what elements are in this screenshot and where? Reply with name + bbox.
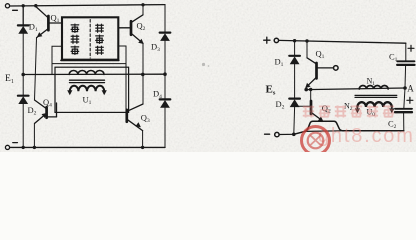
wire bottom rail straight segment under jog	[305, 130, 341, 133]
junction diode branch / bottom rail	[292, 133, 296, 137]
junction mid wire / right branch	[163, 72, 167, 76]
core line between N1 and N2	[355, 94, 397, 96]
terminal (bottom input)	[275, 132, 279, 136]
transformer U1 secondary winding	[70, 86, 104, 91]
polarity dash (bottom-left)	[13, 142, 18, 144]
box bottom emphasis	[61, 59, 119, 61]
transistor Q2	[118, 5, 145, 46]
junction Q2 collector / top rail	[141, 3, 144, 6]
terminal (top-left input)	[5, 4, 9, 8]
box text column 2 (output stage)	[96, 24, 104, 54]
wire right column A to C2	[404, 88, 405, 109]
diode D3	[160, 33, 171, 41]
wire left branch middle	[22, 33, 24, 74]
plus sign C1	[408, 45, 414, 51]
diode D2 (right circuit)	[289, 99, 300, 108]
wire left branch lower	[22, 75, 24, 96]
wire Q2 emitter to Q3 collector	[142, 43, 144, 104]
junction Q4 emitter / bottom rail	[33, 146, 36, 149]
dashed divider inside box	[89, 20, 91, 59]
terminal (bottom-left)	[5, 145, 9, 149]
diode D4	[160, 99, 171, 107]
junction Q3 emitter / bottom rail	[141, 146, 144, 149]
wire right branch upper	[164, 5, 166, 33]
diode D2	[18, 96, 29, 104]
inductor N2 (output winding)	[357, 102, 391, 107]
polarity dash (top-left)	[13, 9, 18, 11]
excitation stage box U	[62, 17, 118, 59]
N2 left lead arrow	[356, 107, 358, 111]
wire mid horizontal (E node)	[23, 73, 165, 75]
wire Q4 emitter to bottom rail	[33, 123, 35, 147]
plus sign C2	[407, 97, 413, 103]
junction left branch / bottom rail	[22, 146, 25, 149]
wire diode branch lower	[293, 107, 296, 134]
capacitor C2	[395, 109, 412, 112]
transistor Q1	[35, 7, 62, 40]
wire Q1 emitter to N1 wire	[305, 87, 307, 89]
wire right column C2 to bottom rail	[403, 112, 405, 131]
wire Q3 emitter to bottom rail	[142, 131, 144, 148]
junction Q1 emitter / N1 wire	[304, 88, 308, 92]
junction D1 branch / top rail	[293, 39, 296, 42]
wire right branch middle	[164, 41, 166, 100]
plus sign (top input)	[264, 37, 270, 43]
diode D1	[18, 25, 29, 33]
N2 right lead arrow	[391, 107, 393, 111]
diode D1 (right circuit)	[289, 56, 300, 65]
wire bottom rail with raised jog	[294, 121, 404, 134]
terminal Q1 base	[334, 66, 339, 71]
secondary right lead arrow	[103, 91, 105, 92]
wire stub from box left edge	[52, 46, 62, 74]
capacitor C1	[397, 61, 414, 65]
watermark hanzi row	[303, 105, 394, 117]
secondary left lead arrow	[69, 91, 71, 92]
wire right column C1 to A	[404, 65, 407, 88]
transformer U1 primary winding	[69, 70, 104, 74]
junction Q1 collector / top rail	[34, 4, 37, 7]
inductor N1	[359, 85, 388, 89]
junction mid wire / Q2 emitter column	[141, 73, 145, 77]
junction D1 branch / top rail	[22, 4, 25, 7]
scan speck	[202, 63, 205, 66]
junction Q2 collector / N1 wire	[309, 88, 312, 91]
junction left branch / mid wire	[21, 73, 25, 77]
wire N1 horizontal to node A	[306, 88, 405, 90]
wire right column top (rail to C1)	[405, 43, 407, 61]
wire top rail (left circuit)	[10, 5, 165, 6]
terminal (top input)	[274, 38, 278, 42]
wire top rail (right circuit)	[279, 40, 406, 43]
transistor Q3	[127, 104, 143, 131]
node A junction	[403, 86, 407, 90]
wire diode branch middle	[294, 64, 296, 98]
svg-text:ght8.com: ght8.com	[318, 125, 415, 147]
wire box bottom to Q3 base column	[52, 63, 126, 65]
svg-text:A: A	[407, 83, 414, 93]
transistor Q4	[35, 100, 57, 123]
wire right branch lower	[164, 108, 166, 148]
box text column 1 (drive stage)	[71, 24, 79, 54]
watermark logo circle	[302, 127, 330, 155]
wire bottom rail left part	[279, 133, 294, 135]
transformer U1 enclosure box	[55, 67, 129, 112]
wire Q1 emitter to Q4 collector	[35, 38, 37, 100]
transistor Q1 (right circuit)	[303, 41, 333, 90]
wire bottom rail (left circuit)	[10, 146, 165, 148]
paper grain	[0, 0, 416, 152]
transistor Q2 (right circuit)	[295, 90, 325, 124]
transformer U1 core	[70, 79, 105, 81]
wire left branch upper	[22, 6, 24, 26]
minus sign (bottom input)	[265, 133, 270, 135]
wire left branch to bottom rail	[22, 104, 24, 148]
wire box right to Q3 base	[118, 46, 126, 110]
junction Q1 collector / top rail	[305, 39, 308, 42]
wire diode branch upper	[294, 41, 296, 56]
